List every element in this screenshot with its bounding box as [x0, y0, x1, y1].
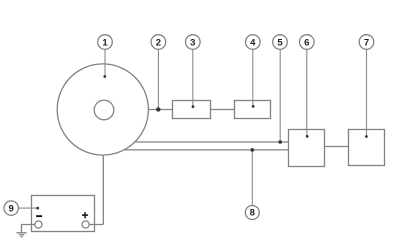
balloon 1 — [98, 35, 113, 50]
battery positive terminal circle — [82, 221, 89, 228]
svg-text:4: 4 — [250, 37, 256, 48]
svg-text:7: 7 — [364, 37, 369, 48]
svg-text:3: 3 — [190, 37, 195, 48]
battery box item 9 — [32, 196, 95, 232]
flywheel magneto outer circle — [57, 64, 148, 155]
dot 6 — [306, 135, 309, 138]
leader 8 — [251, 150, 253, 206]
balloon 4 — [246, 35, 261, 50]
svg-text:5: 5 — [277, 37, 283, 48]
svg-text:8: 8 — [250, 208, 255, 219]
wire upper circle to box 6 — [135, 141, 289, 143]
leader 7 — [366, 49, 368, 136]
wire circle bottom down — [102, 155, 104, 225]
leader 5 — [279, 49, 281, 142]
leader 1 — [104, 49, 106, 76]
wire lower circle to box 6 — [125, 149, 289, 151]
svg-text:9: 9 — [9, 203, 14, 214]
box item 4 — [235, 101, 271, 119]
svg-text:2: 2 — [156, 37, 161, 48]
leader 3 — [192, 49, 194, 106]
balloon 3 — [186, 35, 201, 50]
junction dot 2 — [156, 107, 160, 111]
wire battery negative terminal to ground — [22, 225, 35, 233]
wire box 3 to box 4 — [211, 109, 235, 111]
dot 9 — [36, 207, 39, 210]
battery minus symbol — [36, 215, 42, 217]
balloon 8 — [245, 206, 259, 220]
balloon 7 — [359, 35, 374, 50]
wire to battery positive terminal — [89, 224, 103, 226]
leader lines — [19, 49, 367, 208]
ground symbol — [17, 232, 27, 234]
box item 3 — [173, 101, 211, 119]
junction dot 5 — [278, 140, 282, 144]
battery negative terminal circle — [35, 221, 42, 228]
balloon 6 — [300, 35, 315, 50]
leader 4 — [252, 49, 254, 106]
balloon 5 — [273, 35, 288, 50]
box item 7 — [349, 130, 385, 166]
leader 6 — [306, 49, 308, 136]
svg-text:1: 1 — [102, 37, 108, 48]
callout balloons — [4, 35, 374, 220]
wire box 6 to box 7 — [325, 146, 349, 148]
box item 6 — [289, 130, 325, 167]
balloon 2 — [151, 35, 166, 50]
dot 3 — [192, 105, 195, 108]
dot 1 — [103, 75, 106, 78]
junction dot 8 — [251, 148, 255, 152]
leader 2 — [157, 49, 159, 109]
battery plus symbol — [82, 212, 88, 218]
flywheel hub inner circle — [94, 100, 114, 120]
wire circle to box 3 — [148, 109, 173, 111]
leader end dots — [36, 75, 368, 209]
balloon 9 — [4, 201, 18, 215]
dot 7 — [365, 135, 368, 138]
dot 4 — [252, 105, 255, 108]
leader 9 — [19, 207, 38, 209]
svg-text:6: 6 — [304, 37, 309, 48]
